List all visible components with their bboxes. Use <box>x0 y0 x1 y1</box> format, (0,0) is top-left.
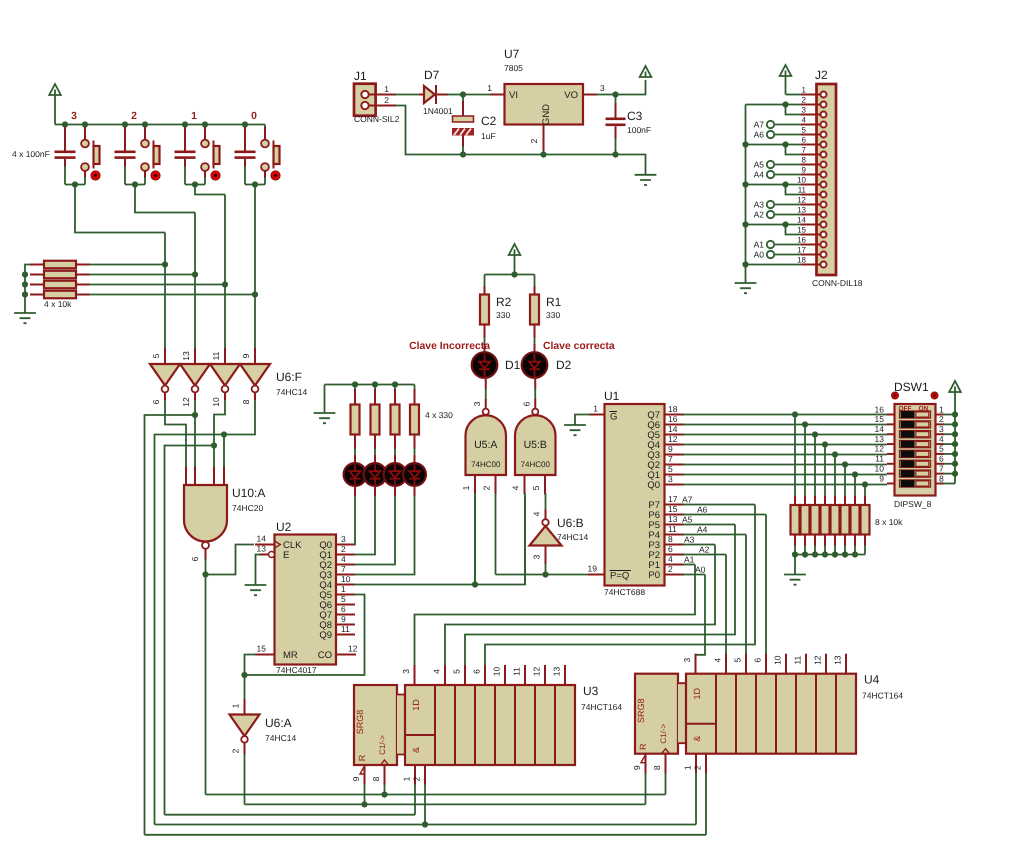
svg-text:A4: A4 <box>754 170 765 180</box>
svg-text:12: 12 <box>797 196 806 205</box>
svg-text:16: 16 <box>875 404 885 414</box>
svg-text:6: 6 <box>472 669 482 674</box>
svg-text:6: 6 <box>668 544 673 554</box>
svg-text:D2: D2 <box>556 358 572 372</box>
svg-text:U1: U1 <box>604 389 620 403</box>
svg-text:10: 10 <box>875 463 885 473</box>
svg-text:5: 5 <box>341 594 346 604</box>
svg-text:&: & <box>692 736 702 742</box>
svg-text:15: 15 <box>875 414 885 424</box>
svg-text:1: 1 <box>461 485 471 490</box>
svg-text:1: 1 <box>231 703 241 708</box>
svg-text:U5:A: U5:A <box>474 439 497 451</box>
svg-text:Q9: Q9 <box>319 630 332 641</box>
svg-text:7805: 7805 <box>504 63 523 73</box>
svg-text:3: 3 <box>939 424 944 434</box>
svg-text:VO: VO <box>564 90 578 101</box>
svg-text:17: 17 <box>668 494 678 504</box>
svg-text:330: 330 <box>496 310 510 320</box>
svg-text:A3: A3 <box>684 535 695 545</box>
svg-text:1: 1 <box>402 776 412 781</box>
svg-text:U10:A: U10:A <box>232 486 265 500</box>
svg-text:0: 0 <box>251 111 257 122</box>
svg-text:4: 4 <box>432 669 442 674</box>
svg-text:A0: A0 <box>754 250 765 260</box>
svg-text:74HCT688: 74HCT688 <box>604 587 645 597</box>
svg-text:9: 9 <box>351 776 361 781</box>
svg-text:2: 2 <box>341 544 346 554</box>
svg-text:8: 8 <box>371 776 381 781</box>
svg-text:9: 9 <box>632 765 642 770</box>
svg-text:4 x 10k: 4 x 10k <box>44 299 72 309</box>
svg-text:Q0: Q0 <box>647 480 660 491</box>
svg-text:1: 1 <box>341 584 346 594</box>
svg-text:10: 10 <box>797 176 806 185</box>
svg-text:A0: A0 <box>695 565 706 575</box>
svg-text:5: 5 <box>531 485 541 490</box>
svg-text:8: 8 <box>802 156 807 165</box>
svg-text:19: 19 <box>588 564 598 574</box>
svg-text:8: 8 <box>939 473 944 483</box>
svg-text:6: 6 <box>802 136 807 145</box>
svg-text:Clave Incorrecta: Clave Incorrecta <box>409 341 490 352</box>
svg-text:10: 10 <box>211 397 221 407</box>
svg-text:2: 2 <box>693 765 703 770</box>
svg-text:15: 15 <box>668 504 678 514</box>
svg-text:13: 13 <box>797 206 806 215</box>
svg-text:10: 10 <box>773 655 783 665</box>
svg-text:74HCT164: 74HCT164 <box>862 691 903 701</box>
svg-text:17: 17 <box>797 246 806 255</box>
svg-text:1N4001: 1N4001 <box>423 106 453 116</box>
svg-text:1: 1 <box>593 404 598 414</box>
svg-text:A1: A1 <box>684 555 695 565</box>
svg-text:C1/->: C1/-> <box>659 723 668 743</box>
svg-text:3: 3 <box>802 106 807 115</box>
svg-text:CO: CO <box>318 650 332 661</box>
svg-text:2: 2 <box>482 485 492 490</box>
svg-text:7: 7 <box>668 454 673 464</box>
svg-text:12: 12 <box>668 434 678 444</box>
svg-text:10: 10 <box>492 667 502 677</box>
svg-text:6: 6 <box>341 604 346 614</box>
svg-text:4: 4 <box>802 116 807 125</box>
svg-text:9: 9 <box>241 353 251 358</box>
svg-text:10: 10 <box>341 574 351 584</box>
svg-text:R2: R2 <box>496 295 512 309</box>
svg-text:5: 5 <box>151 353 161 358</box>
svg-text:A3: A3 <box>754 200 765 210</box>
svg-text:5: 5 <box>452 669 462 674</box>
svg-text:12: 12 <box>532 667 542 677</box>
svg-text:1D: 1D <box>411 699 421 711</box>
svg-text:A1: A1 <box>754 240 765 250</box>
svg-text:3: 3 <box>71 111 77 122</box>
svg-text:4 x 330: 4 x 330 <box>425 410 453 420</box>
svg-text:6: 6 <box>151 399 161 404</box>
svg-text:SRG8: SRG8 <box>355 710 365 735</box>
svg-text:11: 11 <box>793 656 803 665</box>
svg-text:6: 6 <box>190 556 200 561</box>
svg-text:9: 9 <box>341 614 346 624</box>
svg-text:A7: A7 <box>682 495 693 505</box>
svg-text:14: 14 <box>668 424 678 434</box>
svg-text:&: & <box>411 747 421 753</box>
svg-text:5: 5 <box>939 444 944 454</box>
svg-text:6: 6 <box>753 658 763 663</box>
svg-text:U3: U3 <box>583 684 599 698</box>
svg-text:3: 3 <box>600 83 605 93</box>
svg-text:14: 14 <box>797 216 806 225</box>
svg-text:11: 11 <box>875 454 884 464</box>
svg-text:6: 6 <box>939 454 944 464</box>
svg-text:C3: C3 <box>627 109 643 123</box>
svg-text:7: 7 <box>341 564 346 574</box>
svg-text:9: 9 <box>879 473 884 483</box>
svg-text:8: 8 <box>241 399 251 404</box>
svg-text:D1: D1 <box>505 358 521 372</box>
svg-text:4: 4 <box>939 434 944 444</box>
svg-text:7: 7 <box>939 463 944 473</box>
svg-text:4 x 100nF: 4 x 100nF <box>12 149 50 159</box>
svg-text:4: 4 <box>532 511 542 516</box>
svg-text:2: 2 <box>131 111 137 122</box>
svg-text:2: 2 <box>412 776 422 781</box>
svg-text:Clave correcta: Clave correcta <box>543 341 615 352</box>
svg-text:9: 9 <box>802 166 807 175</box>
svg-text:1: 1 <box>487 83 492 93</box>
svg-text:18: 18 <box>797 256 806 265</box>
svg-text:A4: A4 <box>697 525 708 535</box>
svg-text:R1: R1 <box>546 295 562 309</box>
svg-text:16: 16 <box>668 414 678 424</box>
svg-text:5: 5 <box>733 658 743 663</box>
svg-text:74HC14: 74HC14 <box>557 532 588 542</box>
svg-text:U6:F: U6:F <box>276 370 302 384</box>
svg-text:13: 13 <box>552 667 562 677</box>
svg-text:100nF: 100nF <box>627 125 651 135</box>
svg-text:8: 8 <box>668 534 673 544</box>
svg-text:13: 13 <box>668 514 678 524</box>
svg-text:5: 5 <box>668 464 673 474</box>
svg-text:11: 11 <box>341 624 350 634</box>
svg-text:11: 11 <box>668 524 677 534</box>
svg-text:74HC14: 74HC14 <box>265 733 296 743</box>
svg-text:2: 2 <box>939 414 944 424</box>
svg-text:1: 1 <box>802 86 807 95</box>
svg-text:8: 8 <box>652 765 662 770</box>
svg-text:74HC00: 74HC00 <box>521 460 551 469</box>
svg-text:2: 2 <box>668 564 673 574</box>
svg-text:A6: A6 <box>754 130 765 140</box>
svg-text:4: 4 <box>713 658 723 663</box>
svg-text:1: 1 <box>939 404 944 414</box>
svg-text:A2: A2 <box>699 545 710 555</box>
svg-text:GND: GND <box>541 104 552 125</box>
svg-text:CONN-SIL2: CONN-SIL2 <box>354 114 400 124</box>
svg-text:74HC14: 74HC14 <box>276 387 307 397</box>
svg-text:P=Q: P=Q <box>610 571 629 582</box>
svg-text:A6: A6 <box>697 505 708 515</box>
svg-text:74HCT164: 74HCT164 <box>581 702 622 712</box>
svg-text:R: R <box>357 754 367 761</box>
svg-text:13: 13 <box>833 655 843 665</box>
svg-text:13: 13 <box>875 434 885 444</box>
svg-text:11: 11 <box>512 667 522 676</box>
svg-text:11: 11 <box>798 186 807 195</box>
svg-text:74HC00: 74HC00 <box>471 460 501 469</box>
svg-text:2: 2 <box>529 138 539 143</box>
svg-text:16: 16 <box>797 236 806 245</box>
svg-text:J1: J1 <box>354 69 367 83</box>
svg-text:3: 3 <box>668 474 673 484</box>
svg-text:U6:A: U6:A <box>265 716 292 730</box>
svg-text:E: E <box>283 550 289 561</box>
svg-text:MR: MR <box>283 650 298 661</box>
svg-text:12: 12 <box>875 444 885 454</box>
svg-text:12: 12 <box>813 655 823 665</box>
svg-text:R: R <box>638 743 648 750</box>
svg-text:12: 12 <box>348 644 358 654</box>
svg-text:U5:B: U5:B <box>524 439 547 451</box>
svg-text:3: 3 <box>341 534 346 544</box>
svg-text:3: 3 <box>472 401 482 406</box>
svg-text:J2: J2 <box>815 68 828 82</box>
svg-text:9: 9 <box>668 444 673 454</box>
svg-text:15: 15 <box>257 644 267 654</box>
svg-text:A5: A5 <box>754 160 765 170</box>
svg-text:D7: D7 <box>424 68 440 82</box>
svg-text:1: 1 <box>683 765 693 770</box>
svg-text:2: 2 <box>231 748 241 753</box>
svg-text:74HC20: 74HC20 <box>232 503 263 513</box>
svg-text:13: 13 <box>257 544 267 554</box>
svg-text:7: 7 <box>802 146 807 155</box>
svg-text:2: 2 <box>802 96 807 105</box>
svg-text:1: 1 <box>191 111 197 122</box>
svg-text:DSW1: DSW1 <box>894 380 929 394</box>
svg-text:3: 3 <box>682 658 692 663</box>
svg-text:14: 14 <box>257 534 267 544</box>
svg-text:3: 3 <box>401 669 411 674</box>
svg-text:U6:B: U6:B <box>557 516 584 530</box>
svg-text:G: G <box>610 412 617 423</box>
svg-text:SRG8: SRG8 <box>636 698 646 723</box>
svg-text:14: 14 <box>875 424 885 434</box>
svg-text:5: 5 <box>802 126 807 135</box>
svg-text:U4: U4 <box>864 673 880 687</box>
svg-text:6: 6 <box>521 401 531 406</box>
svg-text:VI: VI <box>509 90 518 101</box>
svg-text:4: 4 <box>668 554 673 564</box>
svg-text:15: 15 <box>797 226 806 235</box>
svg-text:A2: A2 <box>754 210 765 220</box>
svg-text:1uF: 1uF <box>481 131 496 141</box>
svg-text:A7: A7 <box>754 120 765 130</box>
svg-text:1D: 1D <box>692 687 702 699</box>
svg-text:3: 3 <box>532 554 542 559</box>
svg-text:P0: P0 <box>648 570 660 581</box>
svg-text:4: 4 <box>511 485 521 490</box>
svg-text:C1/->: C1/-> <box>378 735 387 755</box>
svg-text:13: 13 <box>181 351 191 361</box>
svg-text:74HC4017: 74HC4017 <box>276 665 317 675</box>
svg-text:4: 4 <box>341 554 346 564</box>
svg-text:U7: U7 <box>504 47 520 61</box>
svg-text:1: 1 <box>384 84 389 94</box>
svg-text:A5: A5 <box>682 515 693 525</box>
svg-text:330: 330 <box>546 310 560 320</box>
svg-text:11: 11 <box>211 351 221 360</box>
svg-text:18: 18 <box>668 404 678 414</box>
svg-text:8 x 10k: 8 x 10k <box>875 517 903 527</box>
svg-text:2: 2 <box>384 95 389 105</box>
svg-text:DIPSW_8: DIPSW_8 <box>894 499 932 509</box>
svg-text:12: 12 <box>181 397 191 407</box>
svg-text:CONN-DIL18: CONN-DIL18 <box>812 278 863 288</box>
svg-text:U2: U2 <box>276 520 292 534</box>
svg-text:C2: C2 <box>481 114 497 128</box>
